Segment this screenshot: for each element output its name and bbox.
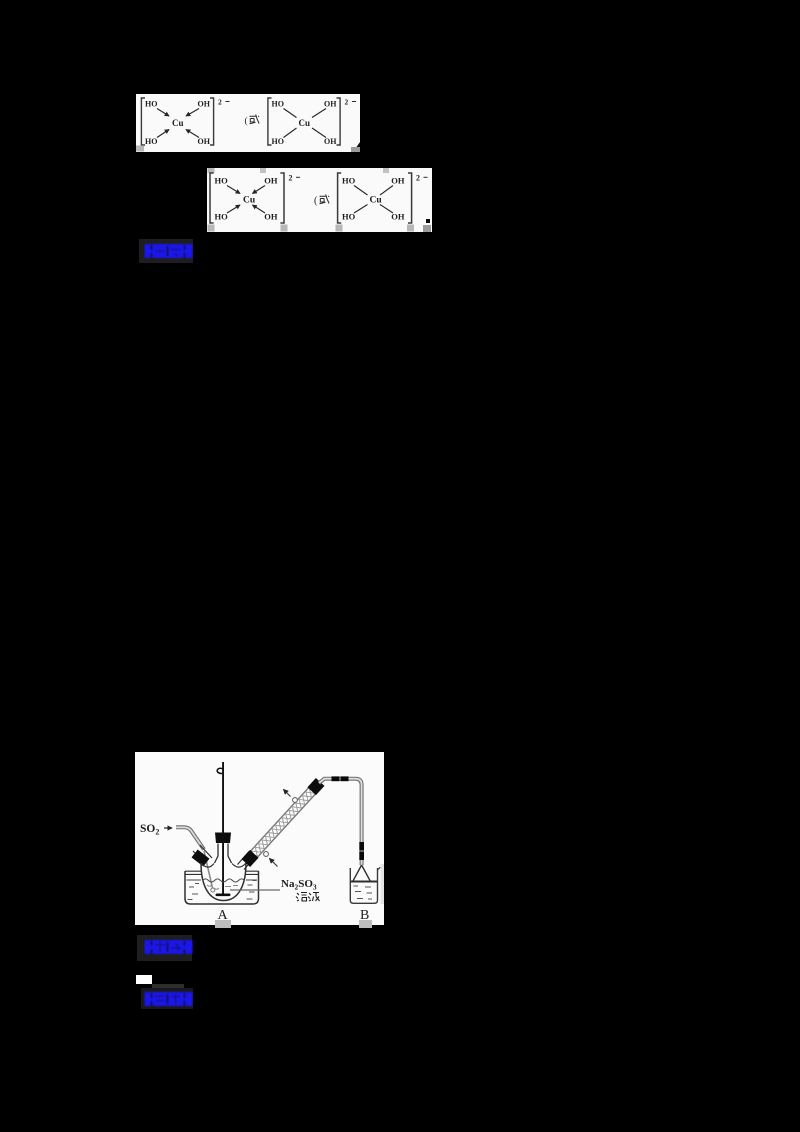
gray handle at box 2 bottom right outside [423, 225, 431, 232]
outlet tube to beaker [319, 779, 362, 865]
right neck walls [238, 852, 256, 870]
svg-text:2: 2 [416, 173, 420, 182]
black square right of box 2 [426, 219, 430, 223]
black caret mark right of box 1 [353, 142, 360, 152]
gray selection handle under label B [359, 920, 372, 928]
svg-text:OH: OH [324, 100, 337, 109]
condenser upper water port [293, 798, 298, 803]
water outlet arrow [284, 790, 291, 797]
SO2 inlet arrow [164, 827, 172, 829]
rongye CJK pseudo-glyphs [296, 893, 320, 902]
stirrer rod [222, 762, 224, 895]
svg-text:Cu: Cu [243, 196, 256, 206]
complex ion 2a: coordinate bond arrows [227, 186, 265, 214]
gray selection handle top-mid [260, 168, 266, 173]
svg-text:HO: HO [342, 212, 356, 222]
svg-text:OH: OH [198, 137, 211, 146]
svg-text:Cu: Cu [370, 196, 383, 206]
svg-text:HO: HO [215, 176, 229, 186]
huo CJK pseudo-glyph [320, 195, 330, 204]
small white rectangle [136, 975, 152, 984]
rubber joins on horizontal tube [332, 776, 349, 781]
complex ion 2b: plain bonds [354, 186, 393, 214]
complex ion 1a: right bracket [210, 98, 214, 145]
complex ion 2a: 2- charge superscript [289, 173, 301, 182]
left neck walls [193, 845, 212, 864]
rubber join on vertical tube [359, 842, 364, 860]
svg-text:Cu: Cu [299, 118, 311, 128]
svg-text:Cu: Cu [172, 118, 184, 128]
svg-text:Na2SO3: Na2SO3 [281, 878, 317, 892]
bath rim lines [185, 871, 259, 874]
flask shoulders [201, 863, 246, 867]
gray selection handle under label A [215, 920, 231, 928]
svg-text:OH: OH [324, 137, 337, 146]
complex ion 1b: left bracket [268, 98, 272, 145]
center neck [215, 844, 232, 864]
svg-text:OH: OH [198, 100, 211, 109]
three-neck flask body [201, 863, 246, 901]
complex ion 1b: right bracket [337, 98, 341, 145]
stirrer crank loop [217, 768, 223, 773]
complex ion 1b: 2- charge superscript [345, 98, 357, 107]
svg-text:2: 2 [218, 98, 222, 107]
gray selection handle top-mid of 2b [383, 168, 389, 173]
gray selection handle bottom-right of 2a [281, 225, 288, 232]
bath water dashes [188, 881, 257, 900]
svg-text:OH: OH [264, 212, 278, 222]
svg-text:HO: HO [145, 100, 157, 109]
beaker water dashes [354, 886, 373, 899]
svg-text:(: ( [314, 196, 318, 207]
water inlet arrow [270, 859, 278, 867]
blue label 2 [144, 939, 194, 955]
gray handle under caret [351, 147, 360, 152]
white panel: hydroxo-copper complex box 2 [207, 168, 432, 232]
complex ion 1b: plain bonds [284, 109, 327, 138]
blue label 1 [144, 243, 194, 259]
svg-text:2: 2 [345, 98, 349, 107]
bath water surface [187, 879, 258, 881]
svg-text:HO: HO [342, 176, 356, 186]
gray selection handle bottom-left of 2b [336, 225, 343, 232]
flask liquid squiggles [207, 885, 238, 890]
gray selection handle bottom-left [136, 146, 144, 152]
dark gray rectangle [152, 984, 184, 992]
beaker B [350, 867, 380, 903]
complex ion 1a: 2- charge superscript [218, 98, 230, 107]
condenser [242, 778, 325, 867]
complex ion 2a: right bracket [280, 173, 284, 223]
gray selection handle top-left [208, 168, 215, 173]
svg-text:SO2: SO2 [140, 823, 159, 837]
blue label 3 [144, 991, 194, 1007]
dark highlight bar behind label 1 [139, 239, 193, 263]
svg-text:HO: HO [145, 137, 157, 146]
huo CJK pseudo-glyph [250, 115, 260, 124]
complex ion 2a: left bracket [210, 173, 214, 223]
gray selection handle bottom-right of 2b [407, 225, 414, 232]
svg-text:OH: OH [391, 212, 405, 222]
complex ion 2b: left bracket [338, 173, 342, 223]
gas inlet tube [176, 827, 204, 849]
light gray strip right of beaker [381, 864, 385, 904]
dark highlight bar behind label 3 [141, 988, 193, 1009]
svg-text:HO: HO [272, 137, 284, 146]
condenser lower water port [264, 852, 269, 857]
label pointer line [230, 889, 280, 891]
dark highlight bar behind label 2 [137, 935, 192, 961]
flask liquid surface [203, 879, 245, 882]
white panel: apparatus diagram [135, 752, 384, 925]
svg-text:OH: OH [264, 176, 278, 186]
dip tube into flask [204, 851, 215, 892]
water bath vessel [185, 871, 259, 904]
svg-text:OH: OH [391, 176, 405, 186]
center neck stopper [215, 833, 231, 844]
complex ion 1a: left bracket [141, 98, 145, 145]
blue annotation label 2 [145, 940, 193, 954]
complex ion 2b: right bracket [408, 173, 412, 223]
blue annotation label 3 [145, 992, 193, 1006]
complex ion 2b: 2- charge superscript [416, 173, 428, 182]
svg-text:HO: HO [215, 212, 229, 222]
white panel: hydroxo-copper complex box 1 [136, 94, 360, 152]
svg-text:(: ( [245, 116, 248, 127]
gray selection handle bottom-left [208, 225, 215, 232]
inverted funnel [351, 865, 378, 882]
svg-text:HO: HO [272, 100, 284, 109]
complex ion 1a: coordinate bond arrows [157, 109, 199, 138]
blue annotation label 1 [145, 244, 193, 258]
left neck rubber stopper [192, 849, 210, 866]
svg-text:2: 2 [289, 173, 293, 182]
stirrer paddle [216, 894, 231, 897]
